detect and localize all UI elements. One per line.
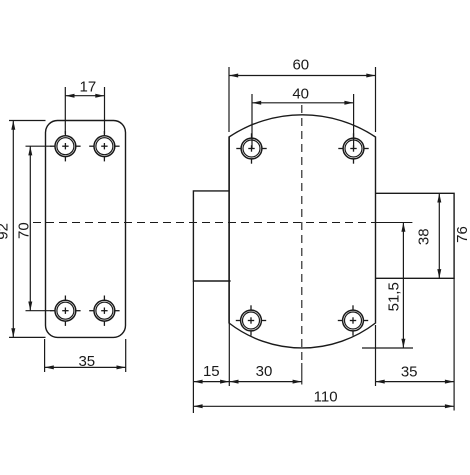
body hole bottom-right (338, 305, 368, 335)
horizontal centerline dashed (33, 222, 376, 224)
body hole top-right (338, 133, 368, 163)
dimension 35 right line (376, 381, 455, 383)
svg-text:70: 70 (15, 222, 32, 239)
strike box (376, 193, 455, 278)
faceplate hole bottom-right (89, 296, 119, 326)
dimension 60 extension lines (228, 67, 230, 132)
extension line cylinder left edge (192, 281, 194, 413)
dimension 30 line (229, 381, 301, 383)
dimension 51.5 line (402, 223, 404, 349)
svg-text:30: 30 (256, 363, 273, 380)
extension line strike box right edge (453, 278, 455, 410)
dimension 110 line (193, 405, 454, 407)
horizontal centerline extension solid (376, 222, 413, 224)
dimension 92 line (12, 121, 14, 338)
cylinder barrel (193, 191, 230, 281)
body hole bottom-left (236, 305, 266, 335)
vertical centerline dashed (301, 105, 303, 360)
dimension 35 left extension lines (44, 339, 46, 372)
dimension 40 extension lines (251, 94, 253, 149)
dimension 92 extension lines (9, 120, 46, 122)
dimension 15 line (193, 381, 229, 383)
svg-text:60: 60 (292, 57, 309, 74)
svg-text:51,5: 51,5 (386, 282, 403, 311)
body hole top-left (236, 133, 266, 163)
svg-text:35: 35 (78, 353, 95, 370)
svg-text:38: 38 (415, 228, 432, 245)
dimension 17 line (65, 95, 104, 97)
svg-text:15: 15 (203, 363, 220, 380)
vertical centerline extension solid (301, 363, 303, 385)
extension line body right edge (375, 325, 377, 386)
svg-text:17: 17 (80, 78, 97, 95)
svg-text:92: 92 (0, 223, 12, 240)
svg-text:40: 40 (292, 85, 309, 102)
dimension 60 line (229, 75, 376, 77)
extension line body left edge (228, 137, 230, 386)
dimension 40 line (252, 102, 354, 104)
dimension 51.5 extension line (362, 347, 413, 349)
faceplate hole bottom-left (50, 296, 80, 326)
svg-text:110: 110 (314, 389, 338, 406)
faceplate outline (46, 121, 126, 338)
dimension 70 extension lines (26, 145, 52, 147)
svg-text:76: 76 (454, 226, 470, 243)
dimension 38 line (438, 193, 440, 278)
dimension 35 left line (45, 366, 126, 368)
dimension 70 line (29, 146, 31, 311)
svg-text:35: 35 (401, 364, 418, 381)
faceplate hole top-left (50, 131, 80, 161)
faceplate hole top-right (89, 131, 119, 161)
dimension 17 extension lines (64, 87, 66, 134)
lock body outline (229, 115, 376, 348)
